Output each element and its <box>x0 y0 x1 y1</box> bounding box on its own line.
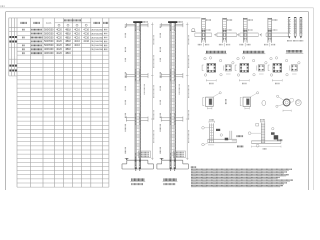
svg-text:500X500: 500X500 <box>44 41 54 43</box>
svg-text:4B18: 4B18 <box>65 33 71 35</box>
svg-text:4C20: 4C20 <box>56 53 62 55</box>
svg-text:4C20: 4C20 <box>56 37 62 39</box>
svg-text:4C16: 4C16 <box>83 33 89 35</box>
svg-text:C8@100/200: C8@100/200 <box>91 33 104 35</box>
svg-text:4C16: 4C16 <box>83 37 89 39</box>
svg-text:C8@100/200: C8@100/200 <box>91 45 104 47</box>
svg-text:4B18: 4B18 <box>65 29 71 31</box>
svg-text:4C16: 4C16 <box>74 29 80 31</box>
svg-text:4C20: 4C20 <box>56 41 62 43</box>
svg-text:4C16: 4C16 <box>74 33 80 35</box>
svg-text:4C16: 4C16 <box>74 45 80 47</box>
svg-text:C8@100/200: C8@100/200 <box>91 37 104 39</box>
svg-text:400X400: 400X400 <box>44 53 54 55</box>
svg-text:4C20: 4C20 <box>56 49 62 51</box>
svg-text:500X500: 500X500 <box>44 45 54 47</box>
svg-text:4C20: 4C20 <box>56 45 62 47</box>
svg-text:4B18: 4B18 <box>65 37 71 39</box>
svg-text:500X500: 500X500 <box>44 37 54 39</box>
svg-text:4C20: 4C20 <box>56 29 62 31</box>
svg-text:b×h: b×h <box>46 21 51 25</box>
svg-text:4C16: 4C16 <box>83 41 89 43</box>
svg-text:4C16: 4C16 <box>74 41 80 43</box>
svg-text:C8@100/200: C8@100/200 <box>91 49 104 51</box>
svg-text:4B18: 4B18 <box>65 45 71 47</box>
svg-text:400X400: 400X400 <box>44 49 54 51</box>
svg-text:4C20: 4C20 <box>56 33 62 35</box>
svg-text:500X500: 500X500 <box>44 29 54 31</box>
svg-text:C8@100/200: C8@100/200 <box>91 41 104 43</box>
svg-text:4B16: 4B16 <box>65 53 71 55</box>
svg-text:4C16: 4C16 <box>83 29 89 31</box>
svg-text:500X500: 500X500 <box>44 33 54 35</box>
svg-text:C8@100/200: C8@100/200 <box>91 29 104 31</box>
svg-text:4B18: 4B18 <box>65 49 71 51</box>
svg-text:4C16: 4C16 <box>74 37 80 39</box>
svg-text:4B18: 4B18 <box>65 41 71 43</box>
